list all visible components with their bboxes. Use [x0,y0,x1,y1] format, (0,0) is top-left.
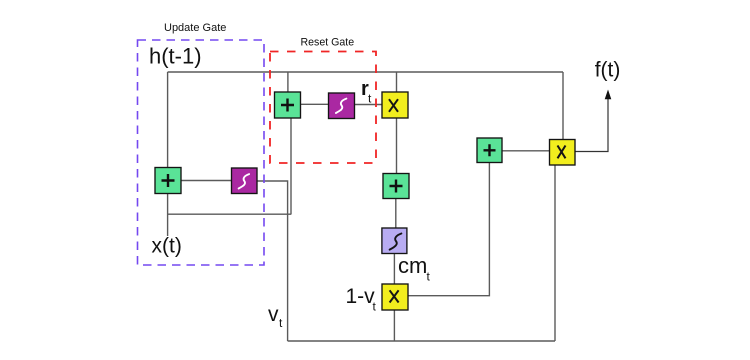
wire top X box down to middle plus [396,118,398,174]
wire reset plus down [290,118,292,214]
X box top (r_t multiply) [382,92,408,118]
wire middle plus down to tanh box [395,199,397,229]
plus box right [477,138,502,163]
reset gate dashed box [270,52,376,164]
wire right X box down to bottom line [554,165,556,341]
wire h(t-1) horizontal top line [168,71,563,73]
svg-text:t: t [279,316,283,330]
svg-text:1-v: 1-v [346,285,376,308]
plus box middle [383,174,409,199]
wire left sigmoid output down to bottom (v_t line) [257,181,288,341]
wire bottom horizontal line [288,340,555,342]
wire left plus to left sigmoid [181,180,232,182]
plus box reset gate [275,92,301,118]
svg-text:h(t-1): h(t-1) [149,44,202,69]
wire reset plus to reset sigmoid [301,103,329,105]
wire h(t-1) down to left plus box [167,72,169,168]
svg-text:t: t [427,270,431,284]
wire right X box to f(t) arrow [575,98,608,152]
wire tanh box down to 1-v X box [393,254,395,285]
wire reset sigmoid to top X box (r_t) [355,104,383,106]
svg-text:Update Gate: Update Gate [164,22,226,34]
plus box update gate (left) [155,168,181,194]
arrowhead f(t) [605,90,612,100]
wire 1-v X box right up to right plus box [408,163,489,296]
svg-text:f(t): f(t) [595,59,621,82]
sigmoid box reset gate (magenta) [329,93,355,119]
wire stub h-line into top X box [396,72,398,92]
X box 1-v_t [382,284,408,310]
tanh box (light purple) [382,228,407,254]
svg-text:x(t): x(t) [152,235,182,258]
sigmoid box update gate (magenta) [232,168,258,194]
svg-text:t: t [373,300,377,314]
wire stub h-line into reset plus [287,72,289,92]
wire right plus to right X box [502,150,550,152]
svg-text:t: t [368,92,372,106]
svg-text:v: v [268,303,279,326]
svg-text:Reset Gate: Reset Gate [301,37,355,49]
wire 1-v X box down to bottom line [393,310,395,341]
wire horizontal joining x(t) line [168,213,292,215]
svg-text:cm: cm [398,253,427,278]
wire down into right X box [562,72,564,140]
wire x(t) up to left plus box [167,194,169,237]
update gate dashed box [138,40,265,265]
X box right (output) [550,140,576,166]
